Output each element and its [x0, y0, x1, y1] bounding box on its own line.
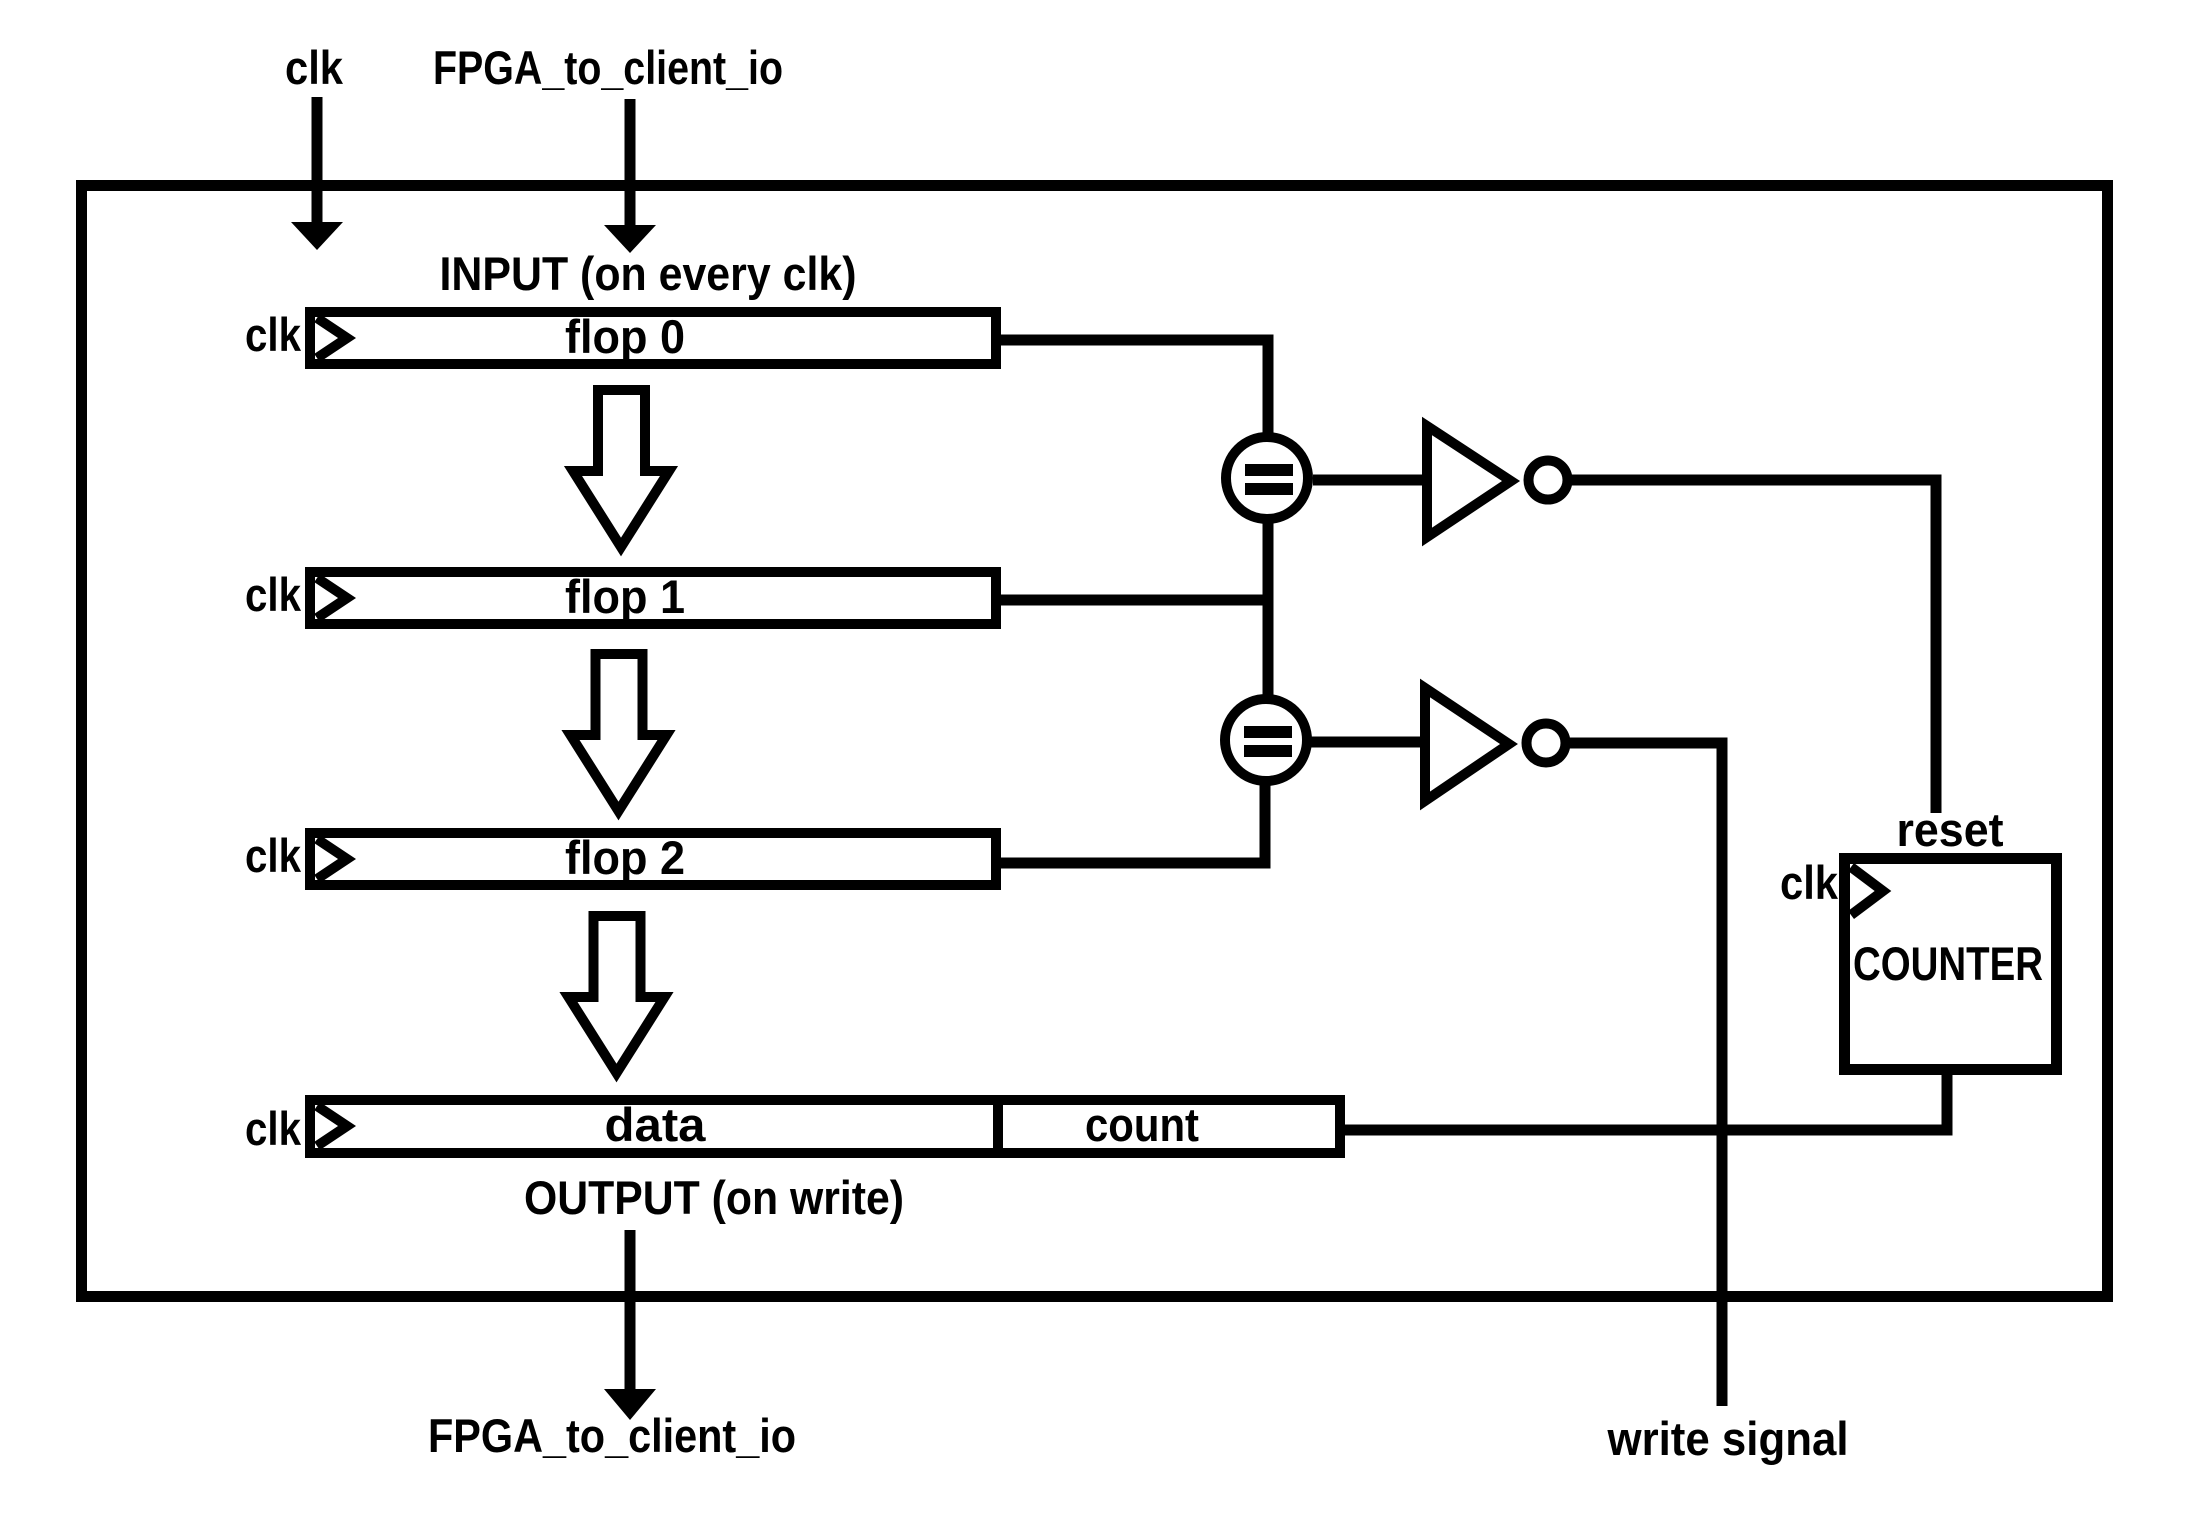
clock chevron flop 0: [317, 318, 347, 358]
wire inverter2 to write signal: [1566, 743, 1722, 1406]
wire flop1 output stub: [1001, 595, 1268, 606]
svg-text:clk: clk: [245, 829, 302, 882]
svg-text:count: count: [1085, 1098, 1199, 1151]
svg-text:clk: clk: [245, 568, 302, 621]
block arrow flop0 to flop1: [573, 390, 669, 547]
svg-text:FPGA_to_client_io: FPGA_to_client_io: [428, 1409, 796, 1462]
wire: output arrow to FPGA_to_client_io: [604, 1230, 656, 1420]
counter COUNTER: [1845, 859, 2057, 1070]
svg-text:write signal: write signal: [1607, 1412, 1849, 1465]
svg-text:OUTPUT (on write): OUTPUT (on write): [524, 1171, 904, 1224]
svg-text:flop 1: flop 1: [565, 570, 685, 623]
register flop 1: [310, 570, 996, 624]
svg-text:flop 0: flop 0: [565, 310, 685, 363]
svg-text:flop 2: flop 2: [565, 831, 685, 884]
wire: clk input arrow: [291, 97, 343, 250]
wire inverter1 to counter reset: [1570, 480, 1936, 813]
clock chevron output register: [317, 1106, 347, 1146]
outer module box: [82, 186, 2108, 1297]
comparator U1 (equality): [1226, 437, 1308, 519]
clock chevron counter: [1851, 867, 1883, 915]
comparator U3 (equality): [1225, 699, 1307, 781]
svg-text:reset: reset: [1897, 803, 2004, 856]
svg-text:clk: clk: [285, 41, 344, 94]
clock chevron flop 1: [317, 578, 347, 618]
output register data|count: [310, 1095, 1340, 1158]
svg-text:INPUT (on every clk): INPUT (on every clk): [440, 247, 857, 300]
svg-text:clk: clk: [245, 1102, 302, 1155]
wire flop0 output to comparator 1: [1001, 340, 1268, 437]
clock chevron flop 2: [317, 839, 347, 879]
wire flop2 output up to comparator 2: [1001, 781, 1265, 863]
svg-text:clk: clk: [245, 308, 302, 361]
wire comparator2 to inverter2: [1307, 737, 1425, 748]
svg-text:FPGA_to_client_io: FPGA_to_client_io: [433, 41, 783, 94]
inverter U4 (NOT gate): [1425, 688, 1566, 801]
register flop 2: [310, 831, 996, 885]
inverter U2 (NOT gate): [1427, 426, 1568, 537]
wire: FPGA_to_client_io input arrow: [604, 99, 656, 253]
wire comparator1 bottom to comparator2 top (junction with flop1 stub): [1263, 515, 1274, 699]
block arrow flop2 to output register: [569, 916, 665, 1073]
register flop 0: [310, 310, 996, 364]
wire counter output to count field: [1345, 1070, 1947, 1130]
svg-text:clk: clk: [1780, 856, 1839, 909]
wire comparator1 to inverter1: [1313, 475, 1427, 486]
svg-text:data: data: [605, 1098, 707, 1151]
block arrow flop1 to flop2: [571, 654, 667, 811]
svg-text:COUNTER: COUNTER: [1853, 937, 2043, 990]
